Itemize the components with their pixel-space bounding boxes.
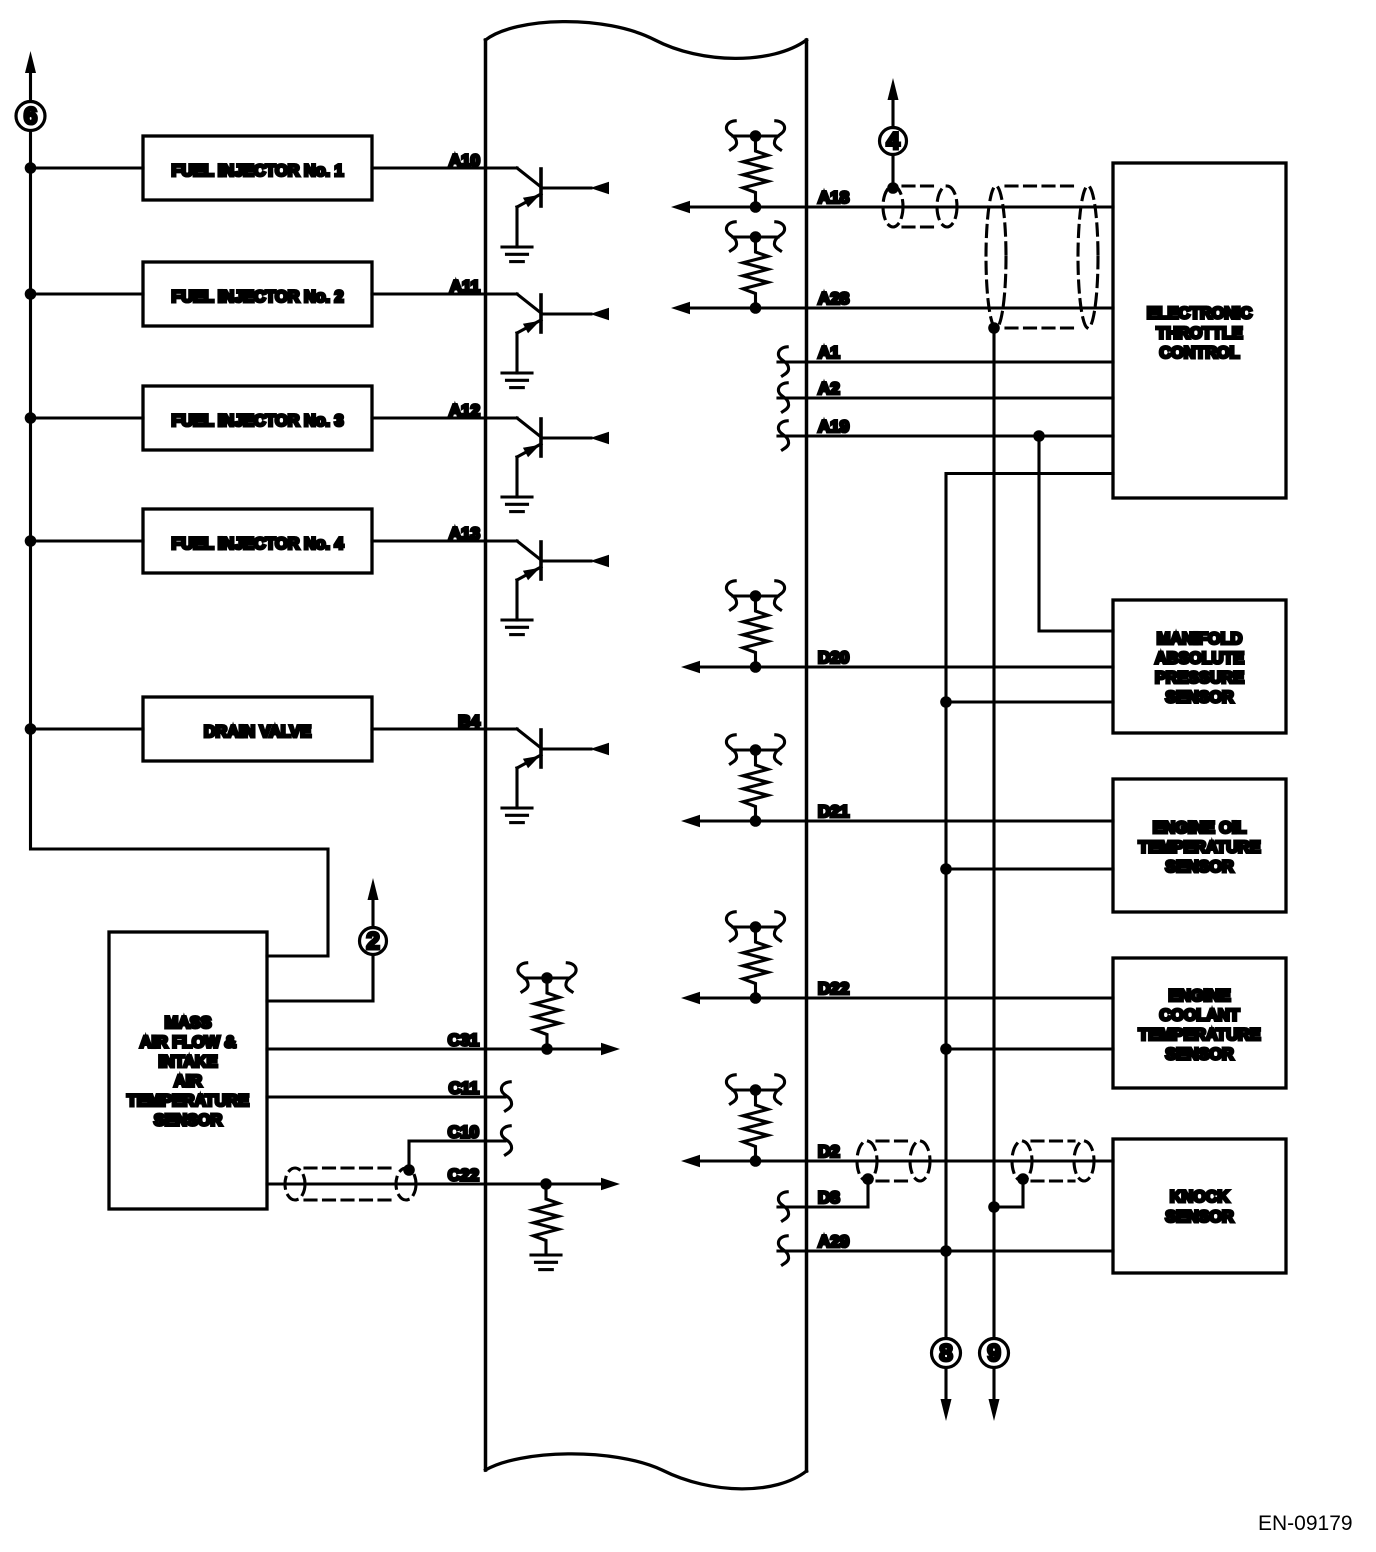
svg-text:EN-09179: EN-09179 [1258,1512,1353,1535]
ECM band torn bottom edge [486,1454,807,1489]
wire A19 to MAP sensor supply [1039,436,1113,631]
pull-up resistor R-A28 [726,222,784,251]
wire C11 from MAF to ECM break [267,1095,505,1098]
wire A28 from ECM to right [688,306,1113,309]
knock sensor box [1113,1139,1286,1273]
mass air flow & intake air temperature sensor box [109,932,267,1209]
node: R-C31 lower junction [541,1043,553,1055]
node: MAP ground junction [940,696,952,708]
shield tube on D2 at knock sensor [1012,1141,1094,1181]
svg-text:4: 4 [886,128,900,155]
wire circled4 upper [891,100,894,128]
svg-text:FUEL INJECTOR No. 2: FUEL INJECTOR No. 2 [171,288,343,306]
svg-text:ENGINE: ENGINE [1168,987,1230,1005]
node: resistor R-A18 lower junction [750,201,762,213]
svg-text:A10: A10 [449,151,480,170]
wire bus to injector 2 [31,292,144,295]
svg-text:C11: C11 [449,1079,479,1098]
pull-up resistor R-D21 [726,735,784,764]
svg-text:KNOCK: KNOCK [1170,1188,1230,1206]
electronic throttle control box [1113,163,1286,498]
node: bus junction injector 1 [25,162,37,174]
svg-text:A29: A29 [818,1232,849,1251]
svg-text:SENSOR: SENSOR [154,1112,223,1130]
svg-text:C22: C22 [448,1166,479,1185]
arrow on A28 pointing left [671,302,690,314]
wire knock shield drain [994,1179,1023,1207]
svg-text:FUEL INJECTOR No. 3: FUEL INJECTOR No. 3 [171,412,343,430]
wire A1 from ECM break to ETC [778,360,1113,363]
ground below R-C22 [531,1255,561,1270]
transistor Q5 drain valve with ground [486,729,609,823]
arrow to fuse circuit 6 [25,51,36,73]
svg-text:ABSOLUTE: ABSOLUTE [1155,650,1244,668]
node: C10 drain at shield tube [403,1164,415,1176]
arrow on D21 pointing left [681,815,700,827]
node: shield drain of ETC twisted pair [988,322,1000,334]
svg-text:C31: C31 [448,1031,479,1050]
shield tube on D2 left [857,1141,930,1181]
ECM band right edge [805,40,809,1471]
wire coolant temp sensor ground [946,1047,1113,1050]
svg-text:SENSOR: SENSOR [1165,858,1234,876]
wire bus to injector 1 [31,166,144,169]
transistor Q1 injector 1 with ground [486,168,609,262]
break squiggle on A2 [778,383,788,412]
svg-text:D22: D22 [818,979,849,998]
svg-text:COOLANT: COOLANT [1159,1007,1239,1025]
arrow down circuit 8 [941,1399,952,1421]
circled 2 [360,928,387,955]
wire injector 3 to ECM pin [372,416,486,419]
svg-text:CONTROL: CONTROL [1159,344,1239,362]
wire D2 from ECM to right [698,1159,1113,1162]
pull-up resistor R-D20 [726,581,784,610]
manifold absolute pressure sensor box [1113,600,1286,733]
svg-text:THROTTLE: THROTTLE [1156,325,1243,343]
arrow on D2 pointing left [681,1155,700,1167]
svg-text:8: 8 [939,1340,952,1367]
node: resistor R-D2 lower junction [750,1155,762,1167]
ECM band torn top edge [486,22,807,59]
wire MAP sensor ground [946,700,1113,703]
wire A18 from ECM to right [688,205,1113,208]
node: A19 junction [1033,430,1045,442]
wire injector 4 to ECM pin [372,539,486,542]
arrow on C31 pointing right [601,1043,620,1055]
node: shield drain A18 [887,182,899,194]
transistor Q4 injector 4 with ground [486,541,609,635]
svg-text:A11: A11 [450,277,480,296]
circled 4 [880,128,907,155]
svg-text:A18: A18 [818,188,849,207]
svg-text:PRESSURE: PRESSURE [1155,669,1244,687]
wire bus to injector 4 [31,539,144,542]
wire D20 from ECM to right [698,665,1113,668]
svg-text:D8: D8 [818,1188,840,1207]
wire drain valve to ECM pin [372,727,486,730]
node: C22 resistor junction [540,1178,552,1190]
node: bus junction drain valve [25,723,37,735]
wire A29 from ECM break to knock sensor [778,1249,1113,1252]
break squiggle on A1 [778,347,788,376]
shield tube on A18 [883,186,957,227]
break squiggle on A19 [778,421,788,450]
node: D8 drain to shield [862,1173,874,1185]
node: A29 junction with line 8 [940,1245,952,1257]
engine oil temperature sensor box [1113,779,1286,912]
svg-text:MANIFOLD: MANIFOLD [1157,630,1243,648]
shield tube twisted pair A18/A28 at ETC [986,186,1098,328]
wire C10 shield drain to ECM break [409,1141,505,1170]
svg-text:FUEL INJECTOR No. 1: FUEL INJECTOR No. 1 [171,162,343,180]
svg-text:A2: A2 [818,379,840,398]
svg-text:SENSOR: SENSOR [1165,1046,1234,1064]
node: resistor R-D21 lower junction [750,815,762,827]
wire C22 from MAF into ECM [267,1182,603,1185]
ECM band left edge [484,40,488,1470]
svg-text:AIR FLOW &: AIR FLOW & [140,1034,237,1052]
svg-text:2: 2 [366,928,379,955]
svg-text:B4: B4 [458,712,480,731]
svg-text:AIR: AIR [174,1073,202,1091]
fuel injector No.2 box [143,262,372,326]
node: resistor R-D20 lower junction [750,661,762,673]
wire: shield line to circled 9 [992,328,995,1400]
svg-text:INTAKE: INTAKE [158,1053,217,1071]
wire injector 2 to ECM pin [372,292,486,295]
wire bus to drain valve [31,727,144,730]
svg-text:D21: D21 [818,802,849,821]
arrow on C22 pointing right [601,1178,620,1190]
wire oil temp sensor ground [946,867,1113,870]
circled 6 [16,102,45,131]
svg-text:A19: A19 [818,417,849,436]
wire A2 from ECM break to ETC [778,396,1113,399]
pull-up resistor R-D2 [726,1075,784,1104]
node: bus junction injector 3 [25,412,37,424]
arrow to circuit 4 [888,78,899,100]
svg-text:TEMPERATURE: TEMPERATURE [1138,839,1260,857]
wire bus to injector 3 [31,416,144,419]
svg-text:DRAIN VALVE: DRAIN VALVE [204,723,312,741]
wire: ETC ground line to circled 8 [946,474,1113,1401]
wire D21 from ECM to right [698,819,1113,822]
svg-text:TEMPERATURE: TEMPERATURE [1138,1026,1260,1044]
svg-text:MASS: MASS [165,1014,212,1032]
fuel injector No.3 box [143,386,372,450]
arrow on D20 pointing left [681,661,700,673]
svg-text:9: 9 [987,1340,1000,1367]
svg-text:ENGINE OIL: ENGINE OIL [1153,819,1247,837]
node: resistor R-D22 lower junction [750,992,762,1004]
transistor Q2 injector 2 with ground [486,294,609,388]
node: oil temp ground junction [940,863,952,875]
wire D8 shield drain from ECM break [778,1179,868,1207]
wire C31 from MAF into ECM [267,1047,603,1050]
pull-up resistor R-A18 [726,121,784,150]
wire MAF to circled 2 [267,955,373,1002]
svg-text:A12: A12 [449,401,480,420]
svg-text:D2: D2 [818,1142,840,1161]
arrow to circuit 2 [368,878,379,900]
node: coolant temp ground junction [940,1043,952,1055]
wire injector 1 to ECM pin [372,166,486,169]
arrow on A18 pointing left [671,201,690,213]
pull-down resistor R-C22 [534,1184,559,1255]
pull-up resistor R-D22 [726,912,784,941]
node: knock shield drain junction with line 9 [988,1201,1000,1213]
svg-text:A1: A1 [818,343,840,362]
shield tube on C22 at MAF sensor [285,1168,416,1200]
svg-text:C10: C10 [448,1123,479,1142]
engine coolant temperature sensor box [1113,958,1286,1088]
wire: left power bus vertical [31,72,329,956]
transistor Q3 injector 3 with ground [486,418,609,512]
svg-text:SENSOR: SENSOR [1165,1208,1234,1226]
svg-text:SENSOR: SENSOR [1165,689,1234,707]
wire circled2 upper [371,900,374,928]
node: resistor R-A28 lower junction [750,302,762,314]
svg-text:D20: D20 [818,648,849,667]
fuel injector No.4 box [143,509,372,573]
wire D22 from ECM to right [698,996,1113,999]
fuel injector No.1 box [143,136,372,200]
circled 9 [980,1339,1009,1368]
svg-text:FUEL INJECTOR No. 4: FUEL INJECTOR No. 4 [171,535,343,553]
svg-text:ELECTRONIC: ELECTRONIC [1147,305,1253,323]
node: knock shield drain at tube [1017,1173,1029,1185]
arrow on D22 pointing left [681,992,700,1004]
svg-text:A13: A13 [449,524,480,543]
wire A19 from ECM break to ETC [778,434,1113,437]
circled 8 [932,1339,961,1368]
wire circled4 to A18 shield [891,155,894,189]
svg-text:A28: A28 [818,289,849,308]
pull-up resistor R-C31 [518,963,576,992]
arrow down circuit 9 [989,1399,1000,1421]
svg-text:6: 6 [24,103,37,130]
node: bus junction injector 2 [25,288,37,300]
drain valve box [143,697,372,761]
node: bus junction injector 4 [25,535,37,547]
svg-text:TEMPERATURE: TEMPERATURE [127,1092,249,1110]
